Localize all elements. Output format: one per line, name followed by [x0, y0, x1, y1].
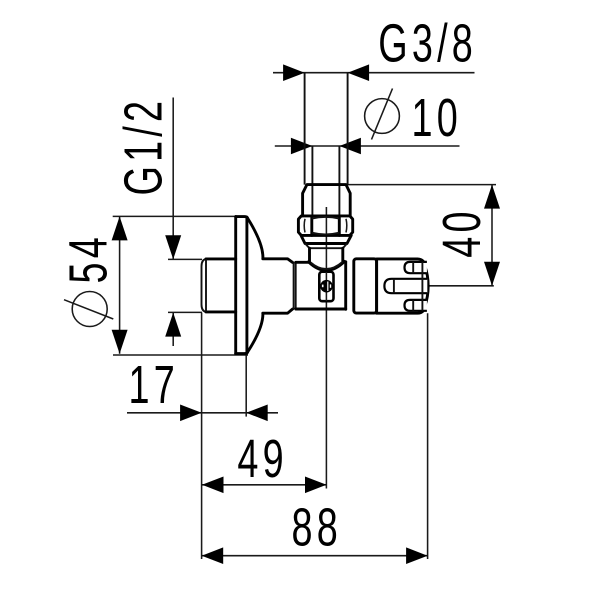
hex nut [298, 216, 352, 236]
label 88 [292, 497, 342, 557]
dimension 40 [346, 185, 500, 286]
dimension diameter-54 [112, 216, 248, 355]
label 54 (rotated) [58, 233, 118, 283]
knob grip groove top [405, 262, 427, 273]
svg-text:49: 49 [237, 428, 287, 488]
dimension 17 [127, 405, 278, 422]
knob rim line over grooves [421, 262, 423, 311]
neck-body saddle arcs [309, 261, 345, 270]
pipe inner walls [312, 146, 339, 216]
flange slab [236, 217, 248, 354]
wall nipple G1/2 [202, 259, 236, 312]
screw head [320, 280, 333, 293]
extension line right (x=427.6) [427, 313, 429, 559]
drain screw boss [319, 272, 333, 302]
extension line 17 right (x=246.2) [245, 356, 247, 417]
bonnet [354, 259, 377, 313]
centerline vertical [325, 207, 327, 489]
dimension 49 [202, 477, 327, 494]
valve body left section [263, 259, 293, 313]
valve neck walls [310, 248, 343, 262]
svg-text:17: 17 [129, 354, 179, 414]
nut skirt [301, 235, 351, 248]
knob grip groove middle [384, 279, 427, 293]
svg-text:G3/8: G3/8 [378, 13, 477, 73]
diameter symbol left [64, 292, 113, 327]
dimension G1/2 leader [165, 98, 202, 347]
label 49 [237, 428, 287, 488]
body seam lines [294, 262, 296, 309]
svg-text:40: 40 [431, 207, 491, 257]
centerline through boss [325, 272, 327, 301]
valve body main section [296, 262, 346, 310]
dimension G3/8 line [273, 64, 475, 81]
svg-text:54: 54 [58, 233, 118, 283]
label G1/2 (rotated) [113, 97, 173, 196]
label G3/8 [378, 13, 477, 73]
extension line left (x=201.6) [201, 313, 203, 559]
svg-text:10: 10 [412, 87, 462, 147]
svg-text:G1/2: G1/2 [113, 97, 173, 196]
flange cone curves [247, 218, 263, 352]
svg-text:88: 88 [292, 497, 342, 557]
knob grip groove bottom [405, 300, 427, 311]
pipe outer walls [305, 73, 348, 185]
label 17 [129, 354, 179, 414]
diameter symbol top [365, 89, 400, 140]
label 40 (rotated) [431, 207, 491, 257]
knob outline [377, 259, 429, 313]
compression nut upper section [303, 185, 351, 216]
label 10 [412, 87, 462, 147]
dimension diameter-10 line [275, 138, 460, 155]
dimension 88 [202, 547, 428, 564]
